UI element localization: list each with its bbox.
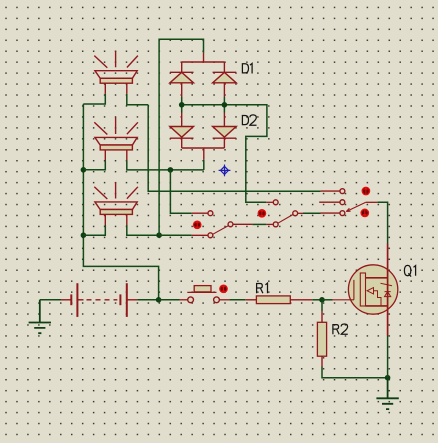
- diode D2a bottom-left: [170, 113, 225, 149]
- wire: Q1 source down to junction: [387, 336, 389, 378]
- wire: SW1 pole to SW2 bottom throw: [252, 223, 266, 225]
- switch SW1: [192, 211, 253, 238]
- diode D1a top-left: [170, 53, 225, 97]
- resistor R1: [245, 296, 312, 304]
- resistor R2: [317, 311, 326, 367]
- pin: SW3 throw2: [319, 201, 340, 203]
- push button SW4: [180, 286, 230, 303]
- wire: R2 bottom to source junction: [322, 367, 388, 378]
- node: battery + junction: [156, 297, 162, 303]
- wire: junction down to R2: [321, 300, 323, 311]
- label R2: [332, 324, 348, 334]
- node: middle rail right: [222, 102, 228, 108]
- wire: L1 right leg to long drop wire: [127, 94, 148, 105]
- actuator red dot SW2: [258, 209, 267, 218]
- label R1: [256, 283, 268, 293]
- wire: bridge middle rail: [182, 97, 267, 202]
- wire: SW3 pole to Q1 drain: [377, 202, 387, 243]
- wire: junction down to SW1 top throw: [170, 170, 191, 213]
- transistor Q1 MOSFET: [333, 244, 398, 336]
- wire: L2 left leg to rail: [83, 161, 105, 170]
- wire: L3 right leg to node: [127, 225, 159, 235]
- wire: L1 left leg to rail: [83, 94, 105, 104]
- node: junction D1-tap / L3 / SW1 pole-throw: [156, 232, 162, 238]
- wire: button to R1: [229, 299, 245, 301]
- actuator red dot SW3 down: [360, 209, 369, 218]
- wire: L2 right leg to D2 centre tap (H1): [127, 161, 204, 170]
- wire: L3 left leg to rail: [83, 225, 105, 235]
- pin: SW3 throw1: [321, 190, 340, 192]
- node: junction on H1: [168, 167, 174, 173]
- node: rail junction at LED3 left leg: [81, 232, 87, 238]
- wire: left rail from LED legs to battery +: [83, 104, 158, 298]
- switch SW3 rotary: [340, 189, 377, 216]
- actuator red dot SW1: [193, 220, 202, 229]
- wire: L1 right leg long drop to H2 row: [148, 105, 320, 191]
- label D1: [242, 63, 252, 73]
- node: gate junction: [319, 297, 325, 303]
- diode D1b top-right: [213, 62, 237, 97]
- label Q1: [404, 265, 415, 276]
- lamp L1 (LED with rays): [94, 51, 138, 94]
- actuator red dot button: [219, 284, 228, 293]
- switch SW2: [266, 200, 303, 227]
- node: source junction: [385, 375, 391, 381]
- pin: SW3 throw3: [321, 212, 340, 214]
- node: middle rail left: [179, 102, 185, 108]
- diode D2b bottom-right: [204, 113, 236, 160]
- battery BAT1: [61, 283, 137, 317]
- wire: R1 to gate junction: [312, 299, 322, 301]
- wire: SW2 pole to SW3 throw 3: [303, 212, 321, 214]
- origin marker: [219, 165, 231, 177]
- ground (battery minus): [29, 300, 51, 333]
- lamp L2 (LED with rays): [94, 118, 138, 161]
- wire: node to SW1 bottom throw: [159, 234, 192, 236]
- wire: D1 top centre tap over to long vertical: [159, 39, 203, 235]
- wire: D2 centre tap down to H1: [203, 160, 205, 170]
- wire: battery + to junction: [137, 299, 158, 301]
- wire: ground to battery: [40, 299, 61, 301]
- wire: junction to Q1 gate pin: [322, 299, 333, 301]
- lamp L3 (LED with rays): [94, 182, 138, 225]
- wire: junction to button: [159, 299, 180, 301]
- ground (source): [376, 378, 398, 409]
- node: rail junction at LED2 left leg: [81, 167, 87, 173]
- actuator red dot SW3 up: [362, 187, 371, 196]
- label D2: [242, 115, 257, 125]
